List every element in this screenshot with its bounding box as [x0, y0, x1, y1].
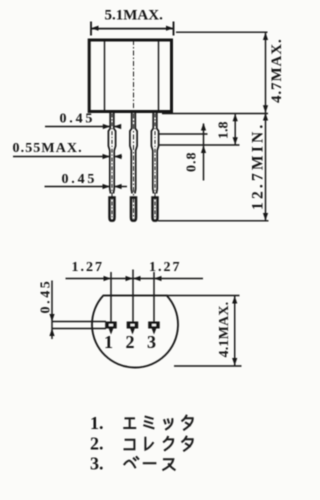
extension line lead feature B [158, 144, 240, 146]
lead 3 tip [153, 198, 158, 221]
leader line pad1 bottom edge [52, 328, 106, 330]
ー [144, 462, 156, 464]
dim line 1.27 pitch [66, 276, 204, 281]
pin 1 pad [105, 322, 117, 329]
ッ [164, 419, 172, 429]
extension vertical pin 2 [132, 270, 134, 322]
svg-text:4.1MAX.: 4.1MAX. [217, 302, 232, 358]
lead 1 (left) outline [108, 113, 115, 194]
package circle (flat top) [92, 296, 178, 368]
コ [125, 440, 135, 450]
lead 2 (middle) outline [130, 113, 137, 194]
svg-text:1.27: 1.27 [72, 260, 105, 275]
lead 1 centerline [111, 114, 113, 220]
dim 1.8 vertical [233, 114, 238, 145]
lead 3 centerline [154, 114, 156, 220]
lead 2 tip [131, 198, 136, 221]
ベ [124, 457, 138, 467]
svg-text:0.45: 0.45 [39, 279, 54, 314]
svg-text:1.: 1. [90, 413, 104, 433]
svg-text:5.1MAX.: 5.1MAX. [105, 8, 164, 24]
dim 4.7MAX vertical [263, 33, 268, 113]
svg-text:2.: 2. [90, 434, 104, 454]
body outline [89, 40, 171, 112]
svg-text:0.45: 0.45 [60, 112, 96, 127]
svg-text:3.: 3. [90, 453, 104, 473]
extension line leads bottom right [158, 220, 269, 222]
dim 0.8 vertical [201, 123, 206, 181]
pin 3 pad [148, 322, 160, 329]
svg-text:4.7MAX.: 4.7MAX. [269, 38, 285, 103]
pin 2 pad [127, 322, 139, 329]
tick under pad 2 [130, 329, 135, 335]
ミ [144, 417, 153, 429]
extension line body bottom right [162, 113, 268, 115]
leader 0.55 [13, 154, 122, 159]
lead 1 tip [110, 198, 115, 221]
leader line pad1 top edge [52, 321, 106, 323]
タ [182, 437, 192, 451]
extension line body top right [176, 31, 268, 33]
ス [163, 459, 174, 470]
leader 0.45 bottom [45, 184, 128, 189]
svg-text:0.8: 0.8 [185, 152, 200, 173]
lead 3 (right) outline [151, 113, 158, 194]
dim 4.1MAX vertical [232, 296, 237, 366]
tick under pad 3 [152, 329, 157, 335]
dim 12.7MIN vertical [263, 113, 268, 221]
katakana コレクタ (collector) [125, 437, 193, 451]
tick under pad 1 [109, 329, 114, 335]
katakana ベース (base) [124, 457, 174, 470]
body inner line right [158, 41, 160, 111]
extension line circle bottom right [174, 365, 242, 367]
エ [124, 418, 135, 428]
body centerline (dash-dot) [133, 40, 135, 219]
leader 0.45 top [45, 124, 121, 129]
svg-text:12.7MIN.: 12.7MIN. [250, 122, 267, 210]
svg-text:1: 1 [104, 332, 113, 352]
extension line flat top right [167, 295, 240, 297]
ク [164, 437, 173, 450]
dim line 5.1 [91, 22, 174, 36]
レ [145, 438, 153, 450]
extension vertical pin 3 [153, 272, 155, 322]
extension vertical pin 1 [110, 272, 112, 322]
svg-text:3: 3 [147, 332, 156, 352]
extension line lead feature A [158, 133, 208, 135]
body inner line left [104, 41, 106, 111]
svg-text:0.45: 0.45 [62, 172, 98, 187]
dim 0.45 vertical (bottom view) [49, 281, 54, 340]
svg-text:0.55MAX.: 0.55MAX. [13, 141, 83, 156]
タ [182, 416, 192, 430]
katakana エミッタ (emitter) [124, 416, 192, 430]
svg-text:1.8: 1.8 [217, 122, 232, 140]
svg-text:2: 2 [126, 332, 135, 352]
